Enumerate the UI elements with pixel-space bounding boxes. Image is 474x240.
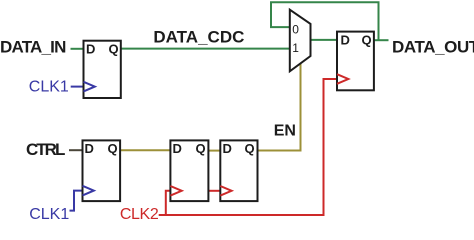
svg-text:D: D — [223, 141, 232, 156]
svg-text:EN: EN — [274, 123, 296, 140]
flip-flop U2 clock triangle — [337, 74, 348, 84]
wire U3.Q to U4.D — [120, 149, 170, 151]
svg-text:Q: Q — [362, 32, 372, 47]
flip-flop U3 body — [83, 140, 121, 201]
svg-text:D: D — [86, 41, 95, 56]
svg-text:CLK1: CLK1 — [29, 78, 69, 95]
wire net DATA_CDC: U1.Q to mux U6 input 1 — [121, 48, 290, 50]
wire CTRL to U3.D — [69, 149, 83, 151]
flip-flop U4 body — [170, 140, 208, 201]
flip-flop U5 body — [220, 140, 257, 201]
wire CLK1 to U3 clock — [70, 191, 83, 211]
flip-flop U5 clock triangle — [220, 186, 231, 196]
mux U6 body — [290, 10, 311, 72]
flip-flop U3 clock triangle — [83, 186, 94, 196]
wire CLK2 link U4 to U5 clock — [208, 190, 220, 192]
flip-flop U2 body — [337, 32, 374, 91]
svg-text:0: 0 — [292, 23, 299, 37]
svg-text:D: D — [173, 141, 182, 156]
wire U2.Q to DATA_OUT — [374, 39, 389, 41]
wire U4.Q to U5.D — [208, 150, 220, 152]
wire CLK1 to U1 clock — [71, 86, 84, 88]
svg-text:DATA_CDC: DATA_CDC — [153, 27, 244, 46]
svg-text:Q: Q — [109, 41, 119, 56]
wire mux U6 output to U2.D — [311, 39, 338, 41]
flip-flop U4 clock triangle — [170, 186, 181, 196]
svg-text:DATA_IN: DATA_IN — [0, 37, 66, 56]
svg-text:Q: Q — [196, 141, 206, 156]
wire feedback U2.Q to mux U6 input 0 — [271, 2, 379, 41]
wire net EN: U5.Q to mux U6 select — [258, 64, 301, 151]
svg-text:Q: Q — [108, 141, 118, 156]
svg-text:D: D — [85, 141, 94, 156]
wire CLK2 to U4 clock and U2 clock — [159, 79, 337, 215]
svg-text:DATA_OUT: DATA_OUT — [392, 37, 474, 56]
svg-text:D: D — [341, 32, 350, 47]
svg-text:CLK2: CLK2 — [120, 206, 159, 221]
wire CLK2 riser to U4 clock — [166, 191, 171, 215]
flip-flop U1 clock triangle — [84, 82, 95, 92]
flip-flop U1 body — [84, 41, 121, 98]
svg-text:Q: Q — [245, 141, 255, 156]
svg-text:1: 1 — [292, 41, 299, 55]
svg-text:CTRL: CTRL — [26, 140, 65, 159]
wire DATA_IN to U1 — [71, 48, 84, 50]
svg-text:CLK1: CLK1 — [29, 206, 69, 221]
